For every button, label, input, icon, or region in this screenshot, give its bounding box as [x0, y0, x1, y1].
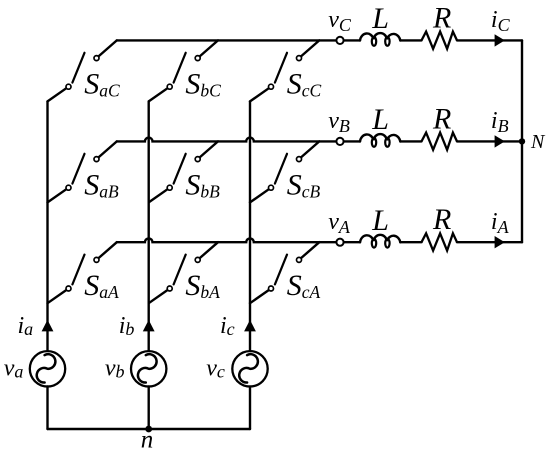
inductor L (row B)	[360, 134, 400, 147]
wire	[147, 387, 149, 430]
svg-text:SaB: SaB	[84, 168, 119, 201]
wire	[400, 140, 421, 142]
switch SaA	[48, 242, 117, 303]
svg-text:vb: vb	[105, 356, 125, 382]
label n	[141, 427, 154, 454]
label SaB	[84, 168, 119, 201]
svg-text:iA: iA	[491, 209, 510, 237]
wire	[344, 140, 360, 142]
label va	[4, 356, 24, 382]
svg-text:vB: vB	[328, 108, 350, 136]
label SaA	[84, 269, 119, 302]
label SbC	[185, 67, 221, 100]
source vc sine symbol	[239, 354, 258, 382]
label ic	[220, 313, 235, 339]
switch ScA	[250, 242, 319, 303]
node N junction dot	[519, 138, 525, 144]
label ib	[119, 313, 135, 339]
svg-text:R: R	[432, 1, 451, 34]
wire	[46, 387, 48, 430]
label ScA	[287, 269, 321, 302]
wire: input column b vertical	[147, 101, 149, 350]
wire	[344, 241, 360, 243]
svg-text:ia: ia	[18, 313, 34, 339]
wire: input column a vertical	[46, 101, 48, 350]
label N	[530, 131, 546, 153]
source vb circle	[131, 351, 166, 386]
label ScB	[287, 168, 321, 201]
svg-text:R: R	[432, 102, 451, 135]
inductor L (row A)	[360, 235, 400, 248]
wire	[400, 39, 421, 41]
svg-text:SbA: SbA	[185, 269, 220, 302]
wire	[400, 241, 421, 243]
svg-text:SbC: SbC	[185, 67, 221, 100]
label vc	[206, 356, 225, 382]
wire: output bus row C	[117, 39, 336, 41]
svg-text:N: N	[530, 131, 546, 153]
svg-text:iB: iB	[491, 108, 509, 136]
switch ScB	[250, 141, 319, 202]
arrow ib	[143, 320, 155, 332]
switch SaC	[48, 40, 117, 101]
svg-text:n: n	[141, 427, 154, 454]
svg-text:ScA: ScA	[287, 269, 321, 302]
svg-text:vc: vc	[206, 356, 225, 382]
label L (row C)	[371, 2, 389, 35]
svg-text:ib: ib	[119, 313, 135, 339]
label SbB	[185, 168, 220, 201]
arrow iB	[495, 135, 505, 147]
inductor L (row C)	[360, 33, 400, 46]
wire	[249, 387, 251, 430]
node vB terminal circle	[336, 138, 343, 145]
switch SbC	[149, 40, 218, 101]
arrow ic	[244, 320, 256, 332]
svg-text:vC: vC	[328, 7, 352, 35]
wire	[457, 140, 522, 142]
resistor R (row A)	[422, 233, 458, 250]
svg-text:SbB: SbB	[185, 168, 220, 201]
label L (row A)	[371, 204, 389, 237]
label SbA	[185, 269, 220, 302]
label R (row A)	[432, 203, 451, 236]
label R (row C)	[432, 1, 451, 34]
label R (row B)	[432, 102, 451, 135]
source va circle	[30, 351, 65, 386]
arrow iA	[495, 236, 505, 248]
label iB	[491, 108, 509, 136]
svg-text:va: va	[4, 356, 24, 382]
arrow iC	[495, 34, 505, 46]
svg-text:L: L	[371, 103, 389, 136]
svg-text:ScB: ScB	[287, 168, 321, 201]
svg-text:ic: ic	[220, 313, 235, 339]
wire: output bus row A	[117, 238, 336, 242]
label vA	[328, 209, 351, 237]
wire: output bus row B	[117, 138, 336, 142]
svg-text:vA: vA	[328, 209, 351, 237]
svg-text:SaC: SaC	[84, 67, 120, 100]
label SaC	[84, 67, 120, 100]
label ScC	[287, 67, 322, 100]
wire: right vertical to N	[521, 40, 523, 242]
svg-text:SaA: SaA	[84, 269, 119, 302]
wire	[457, 241, 522, 243]
node n junction dot	[145, 426, 152, 433]
label vB	[328, 108, 350, 136]
source vc circle	[232, 351, 267, 386]
node vA terminal circle	[336, 239, 343, 246]
switch SbA	[149, 242, 218, 303]
resistor R (row B)	[422, 133, 458, 150]
source va sine symbol	[37, 354, 56, 382]
label iC	[491, 7, 511, 35]
wire: input column c vertical	[249, 101, 251, 350]
arrow ia	[42, 320, 54, 332]
switch ScC	[250, 40, 319, 101]
switch SaB	[48, 141, 117, 202]
svg-text:L: L	[371, 204, 389, 237]
label L (row B)	[371, 103, 389, 136]
node vC terminal circle	[336, 37, 343, 44]
wire	[457, 39, 522, 41]
wire: bottom neutral bus	[48, 428, 251, 430]
svg-text:L: L	[371, 2, 389, 35]
source vb sine symbol	[138, 354, 157, 382]
svg-text:iC: iC	[491, 7, 511, 35]
label vb	[105, 356, 125, 382]
switch SbB	[149, 141, 218, 202]
wire	[344, 39, 360, 41]
svg-text:R: R	[432, 203, 451, 236]
resistor R (row C)	[422, 32, 458, 49]
label vC	[328, 7, 352, 35]
label iA	[491, 209, 510, 237]
svg-text:ScC: ScC	[287, 67, 322, 100]
label ia	[18, 313, 34, 339]
